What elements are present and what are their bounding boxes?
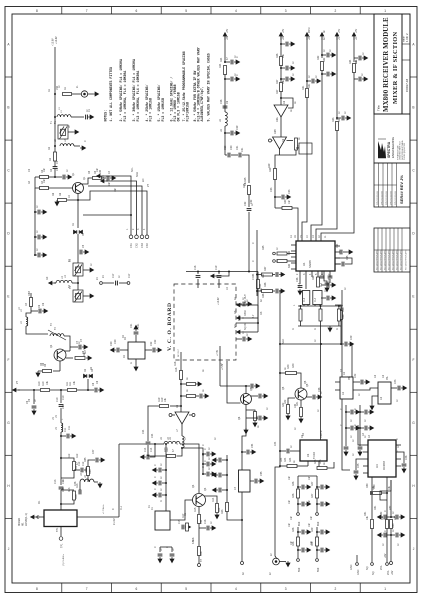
svg-text:C: C (154, 464, 157, 466)
svg-text:100: 100 (200, 519, 203, 524)
wire to C8 (88, 389, 94, 391)
ground bypass (315, 79, 321, 83)
wire U4 left pin (363, 465, 368, 467)
wire C54 lead (242, 451, 246, 453)
wire U1 right pin (335, 245, 340, 247)
wire rail to vco top (248, 212, 250, 272)
wire U4 right net (401, 452, 404, 463)
svg-text:AGC: AGC (282, 339, 285, 344)
ground stub (196, 382, 202, 386)
IF IC U1 (296, 241, 335, 271)
wire rc stub (203, 453, 206, 455)
svg-text:C22: C22 (154, 339, 157, 344)
pad vco a (100, 282, 103, 285)
wire stub (307, 80, 311, 82)
svg-text:R41: R41 (296, 401, 299, 406)
wire to C38 (306, 396, 312, 398)
terminal SQ IN (237, 330, 244, 334)
capacitor unit (302, 530, 304, 535)
svg-text:1k5: 1k5 (260, 287, 263, 292)
junction (297, 549, 299, 551)
wire unit feed (297, 476, 299, 489)
junction (274, 196, 276, 198)
svg-text:6: 6 (136, 9, 138, 13)
svg-text:R12: R12 (76, 453, 79, 458)
capacitor C37 (325, 283, 330, 285)
svg-text:X3: X3 (306, 453, 310, 457)
wire X2 left (120, 349, 128, 351)
wire rail2 a (280, 36, 282, 56)
junction (202, 463, 204, 465)
svg-text:ALB1NRED,C7NF/4p7,: ALB1NRED,C7NF/4p7, (200, 86, 204, 121)
junction (340, 343, 342, 345)
svg-text:1. NOT ALL COMPONENTS FIT: 1. NOT ALL COMPONENTS FITTED (109, 67, 113, 122)
wire R20 to C24 (148, 455, 166, 457)
svg-text:R14: R14 (212, 497, 215, 502)
svg-text:C43: C43 (394, 379, 397, 384)
capacitor bypass (243, 337, 245, 342)
junction (197, 271, 199, 273)
wire L7 out (177, 448, 183, 456)
ground unit (324, 548, 330, 552)
wire T2 out (83, 269, 88, 271)
ground bypass (152, 493, 158, 497)
buffer amplifier U5 (175, 412, 189, 424)
resistor R2 (54, 152, 57, 161)
junction (226, 489, 228, 491)
wire to T2 (77, 250, 79, 263)
resistor R37 (262, 273, 273, 276)
inductor L7 (182, 436, 184, 448)
wire Q2 collector stub (64, 350, 70, 352)
svg-text:10n: 10n (108, 181, 111, 186)
resistor filter termination (319, 309, 322, 321)
ground C54 (250, 450, 256, 454)
ground Q4 emitter (244, 428, 248, 434)
svg-text:C54: C54 (251, 443, 254, 448)
testpoint TP2 (198, 564, 201, 567)
wire xtal trunk (165, 444, 167, 511)
junction (77, 282, 79, 284)
svg-text:R20: R20 (164, 447, 167, 452)
svg-text:SQ: SQ (372, 571, 375, 575)
ground bypass (289, 77, 295, 81)
ground unit (305, 530, 311, 534)
resistor R36 (277, 260, 287, 263)
junction (165, 482, 167, 484)
svg-text:RX: RX (46, 276, 49, 280)
wire to C9 (33, 390, 35, 404)
capacitor rc (207, 452, 209, 457)
wire cap stub (171, 547, 173, 552)
svg-text:C47: C47 (92, 449, 95, 454)
wire to T3 (77, 283, 79, 290)
transistor Q1 (73, 183, 84, 194)
wire U1 bottom pin (305, 271, 307, 277)
supply terminal +8V (223, 33, 227, 40)
ground bypass (41, 210, 47, 214)
wire vco top rail (186, 271, 258, 273)
pad unit out (316, 559, 319, 562)
capacitor C42 (361, 380, 363, 385)
wire to C11 (61, 435, 66, 437)
ground bypass (344, 450, 348, 456)
junction (241, 519, 243, 521)
wire R38 b (273, 290, 276, 292)
wire R35 to pin (287, 253, 296, 255)
ground bypass (170, 557, 174, 563)
wire U4 left pin (363, 472, 368, 474)
junction (60, 389, 62, 391)
wire R7 to L4 (26, 307, 31, 318)
op-amp U6A (274, 105, 288, 117)
svg-text:10n: 10n (288, 199, 291, 204)
svg-text:B: B (412, 106, 414, 110)
junction (279, 343, 281, 345)
svg-text:10n: 10n (102, 175, 105, 180)
junction (54, 116, 56, 118)
svg-text:C14: C14 (144, 447, 147, 452)
wire U4 right pin (396, 465, 401, 467)
wire stub (337, 117, 341, 119)
terminal +13.8V in (211, 274, 218, 278)
ground bypass (152, 468, 158, 472)
wire L6 to Q3 (180, 444, 199, 493)
junction (359, 411, 361, 413)
wire VCO trunk a (60, 390, 62, 403)
wire C35 lead (335, 263, 341, 265)
capacitor C21 (134, 332, 139, 334)
ground bypass (399, 533, 405, 537)
wire termination lead (338, 321, 340, 326)
resistor R5 (93, 177, 102, 180)
capacitor C54 (247, 450, 249, 455)
resistor R18 (180, 371, 183, 380)
svg-text:C: C (204, 460, 207, 462)
wire bus link (83, 214, 131, 216)
junction (300, 305, 302, 307)
wire U4 left pin (363, 458, 368, 460)
junction (280, 67, 282, 69)
connector pin CN3 (140, 235, 144, 239)
resistor filter termination (337, 309, 340, 321)
wire R37 a (257, 274, 262, 276)
wire J2 out (280, 561, 287, 563)
resistor R20 (167, 455, 176, 458)
resistor R9 (43, 370, 52, 373)
pad AF (386, 563, 389, 566)
capacitor C2 series (53, 167, 58, 169)
resistor R1 (63, 93, 72, 96)
junction (345, 427, 347, 429)
wire J1 out (88, 93, 93, 95)
svg-text:R50: R50 (366, 483, 369, 488)
ground stub (203, 394, 209, 398)
svg-text:10n: 10n (288, 499, 291, 504)
ground bypass (377, 533, 383, 537)
varactor D2 (84, 374, 93, 378)
resistor R46 (297, 489, 300, 498)
wire center trunk B (320, 326, 322, 440)
resistor R33 (336, 122, 339, 131)
ground C46 (402, 467, 406, 473)
capacitor bypass (231, 77, 233, 82)
capacitor C52 (320, 276, 325, 278)
junction (202, 473, 204, 475)
svg-text:C: C (354, 408, 357, 410)
resistor R47 (316, 489, 319, 498)
wire tune bus a (18, 389, 40, 391)
wire C19 lead (218, 272, 220, 275)
wire X2 top (135, 335, 137, 342)
resistor R49 (316, 537, 319, 546)
svg-text:R52: R52 (380, 511, 383, 516)
resistor R15 (198, 515, 201, 524)
wire corner loop (380, 480, 391, 500)
svg-text:+8V: +8V (308, 35, 311, 40)
svg-text:R13: R13 (75, 494, 78, 499)
wire Q1 emitter (77, 194, 79, 201)
wire stub (321, 297, 326, 299)
capacitor C20 (117, 348, 119, 353)
pad vco b (127, 282, 130, 285)
wire branch1 left (35, 176, 40, 178)
svg-text:SA605: SA605 (308, 260, 312, 268)
ground C39 (262, 394, 268, 398)
capacitor C46 (402, 464, 407, 466)
ground bypass (358, 450, 362, 456)
junction (154, 443, 156, 445)
ground rc (210, 452, 216, 456)
wire control bus 3 (88, 186, 142, 235)
regulator U2 (340, 377, 353, 399)
wire (359, 445, 361, 446)
svg-text:R15: R15 (194, 507, 197, 512)
svg-text:REV DESCRIPTION APPD: REV DESCRIPTION APPD (387, 249, 390, 270)
svg-text:2: 2 (335, 9, 337, 13)
ground bypass (330, 53, 336, 57)
testpoint TP1 (59, 537, 63, 541)
svg-text:FL3=10M15B: FL3=10M15B (186, 102, 190, 122)
svg-text:FL3: FL3 (303, 297, 306, 302)
wire termination top (320, 306, 322, 309)
svg-text:R27: R27 (276, 89, 279, 94)
wire X2 right (145, 349, 152, 351)
ground C55 (258, 479, 264, 483)
svg-text:R51: R51 (374, 505, 377, 510)
wire C44 to trunk (280, 450, 286, 452)
wire cap stub (317, 503, 320, 505)
wire C30 to C31 (231, 154, 238, 156)
ground unit (324, 502, 330, 506)
svg-text:+7.4V: +7.4V (217, 349, 219, 356)
svg-text:R56: R56 (342, 314, 345, 319)
svg-text:R22: R22 (256, 415, 259, 420)
svg-text:OR FL3 = 10M15B: OR FL3 = 10M15B (177, 92, 181, 121)
junction (218, 271, 220, 273)
connector J1 antenna (81, 91, 87, 97)
wire R36 to pin (287, 260, 296, 262)
wire R25 down (248, 195, 250, 208)
svg-text:R11: R11 (69, 381, 72, 386)
ground C16 (210, 526, 216, 530)
svg-text:GND: GND (357, 569, 360, 575)
wire stub (225, 61, 230, 63)
svg-text:C31: C31 (236, 145, 239, 150)
capacitor C15 (182, 525, 184, 530)
wire to pad b (386, 529, 388, 563)
capacitor bypass (351, 410, 353, 415)
wire Q1 collector (81, 178, 92, 184)
svg-text:330: 330 (288, 263, 291, 268)
capacitor C11 (67, 434, 69, 439)
svg-text:R18: R18 (174, 361, 177, 366)
svg-text:R16: R16 (192, 537, 195, 542)
wire SQ IN (242, 331, 258, 333)
svg-text:78L: 78L (348, 375, 351, 380)
svg-text:10n: 10n (288, 475, 291, 480)
junction (34, 254, 36, 256)
ground bypass (158, 557, 162, 563)
wire U1 left pin (291, 256, 296, 258)
capacitor bypass (327, 72, 329, 77)
wire to C39 (251, 395, 258, 397)
wire to R29 (275, 155, 280, 169)
wire unit feed (316, 527, 318, 537)
resistor bias (187, 383, 196, 386)
svg-text:C: C (154, 546, 157, 548)
wire cap stub (317, 531, 320, 533)
svg-text:VOL: VOL (380, 565, 383, 570)
svg-text:+8V: +8V (384, 553, 387, 558)
resistor R45 (317, 467, 327, 470)
wire U1 pin to C36 (299, 277, 301, 284)
svg-text:C: C (340, 408, 343, 410)
capacitor C18 series (196, 276, 201, 278)
ground bypass (362, 56, 368, 60)
resistor R52 (386, 520, 389, 529)
wire control bus 2 (106, 181, 137, 235)
connector pin CN2 (135, 235, 139, 239)
wire stub (181, 383, 186, 385)
svg-text:R27: R27 (276, 79, 279, 84)
wire U4 down a (371, 477, 373, 519)
junction (226, 459, 228, 461)
wire stub l (387, 516, 391, 518)
ground bypass (399, 515, 405, 519)
wire cap stub (162, 494, 166, 496)
svg-text:TP1: TP1 (61, 543, 64, 548)
wire stub (281, 78, 285, 80)
capacitor unit (302, 502, 304, 507)
crystal X2 (128, 342, 145, 359)
terminal CN1 (97, 174, 104, 178)
svg-text:V. C. O. BOARD: V. C. O. BOARD (167, 302, 173, 351)
svg-text:R31: R31 (308, 83, 311, 88)
wire R29 down (274, 180, 276, 209)
wire to buffer in (148, 406, 159, 439)
capacitor C9 (32, 406, 37, 408)
pad AF out (241, 562, 244, 565)
ground C7 (82, 345, 88, 349)
pad GND (356, 563, 359, 566)
wire R13 bottom (61, 500, 74, 504)
resistor R19 (160, 405, 169, 408)
svg-text:10n: 10n (114, 187, 117, 192)
svg-text:CN3: CN3 (141, 243, 144, 248)
svg-text:F: F (413, 358, 415, 362)
svg-text:10n: 10n (308, 522, 311, 527)
svg-text:+8V: +8V (283, 28, 285, 33)
capacitor C4 (107, 176, 109, 181)
wire R28 loop (280, 150, 297, 155)
wire IF riser (118, 444, 120, 517)
wire Q1 to filter (77, 200, 79, 228)
wire L3 out (72, 282, 78, 284)
wire stub2 (196, 395, 199, 397)
wire T4 to Q2 (64, 336, 70, 351)
junction (371, 492, 373, 494)
wire rail6 to U1 (321, 73, 354, 242)
svg-text:R26: R26 (276, 53, 279, 58)
wire to L3 (54, 282, 56, 284)
capacitor bypass (38, 210, 40, 215)
ground bypass (330, 296, 336, 300)
wire C34 (343, 251, 347, 253)
svg-text:R19: R19 (158, 397, 161, 402)
wire R56 top (335, 305, 341, 311)
svg-text:C: C (236, 56, 239, 58)
capacitor C5 (80, 250, 82, 255)
svg-text:C: C (202, 466, 205, 468)
svg-text:U6A: U6A (276, 117, 279, 122)
svg-text:R54: R54 (259, 283, 262, 288)
svg-text:R32: R32 (317, 55, 320, 60)
svg-text:10n: 10n (290, 540, 293, 545)
svg-text:FB: FB (297, 145, 300, 148)
svg-text:R38: R38 (262, 293, 265, 298)
capacitor bypass (396, 515, 398, 520)
capacitor C34 (340, 250, 342, 255)
resistor R32 (321, 62, 324, 71)
ground bypass (354, 410, 360, 414)
wire cap stub (317, 549, 320, 551)
capacitor bypass (38, 235, 40, 240)
svg-text:C48: C48 (74, 481, 77, 486)
svg-text:R55: R55 (89, 469, 92, 474)
ground C20 (110, 348, 116, 352)
svg-text:REV DESCRIPTION APPD: REV DESCRIPTION APPD (405, 249, 408, 270)
wire mixer LO pin (40, 516, 44, 518)
capacitor C39 (259, 394, 261, 399)
svg-text:C32: C32 (250, 199, 253, 204)
wire rail1 b (224, 75, 226, 113)
crystal X1 (155, 511, 170, 530)
wire cap stub (317, 486, 320, 488)
svg-text:REV DESCRIPTION APPD: REV DESCRIPTION APPD (399, 249, 402, 270)
capacitor unit (321, 548, 323, 553)
wire cap stub (298, 549, 301, 551)
wire mixer IF out (60, 527, 62, 537)
capacitor C1 (86, 115, 88, 120)
svg-text:CN4: CN4 (146, 243, 149, 248)
svg-text:C49: C49 (350, 335, 353, 340)
junction (60, 503, 62, 505)
svg-text:10n: 10n (308, 475, 311, 480)
pad U6B in (269, 139, 272, 142)
wire R1 to J1 (72, 93, 81, 95)
svg-text:SHEET: SHEET (404, 35, 406, 42)
